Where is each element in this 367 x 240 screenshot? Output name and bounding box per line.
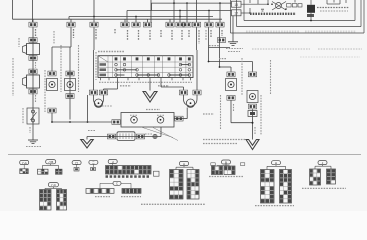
flasher label text	[317, 7, 349, 9]
ground label text	[226, 48, 243, 50]
connector J8 top row	[176, 22, 184, 27]
wire drop to connector x=187	[186, 3, 188, 22]
indicator lamp B	[157, 115, 165, 123]
legend connector hA grid	[20, 165, 28, 174]
legend connector ni label	[89, 160, 98, 164]
connector J12 top row	[216, 22, 224, 27]
wire feed vertical x=94	[93, 0, 95, 17]
wire side lamp R down	[230, 100, 232, 122]
connector below side turn L	[66, 94, 74, 99]
label front turn signal lamp left	[44, 70, 46, 112]
inline connector circle	[153, 134, 157, 138]
turn signal switch S2 block	[98, 56, 193, 78]
wire long feed x=196.5 to right bulb	[196, 27, 198, 50]
legend connector hC grid left	[40, 190, 52, 211]
connector chain left	[107, 134, 115, 139]
junction x=52	[51, 121, 53, 123]
connector below horn H2	[29, 89, 37, 94]
wire colour label	[35, 29, 37, 37]
label horn switch	[22, 108, 24, 124]
wire colour label	[221, 30, 223, 36]
wire colour label	[254, 127, 256, 135]
legend B side tag left	[211, 163, 215, 166]
flasher internal wire y=13	[241, 12, 250, 14]
ground G1 horn switch	[28, 140, 38, 144]
flasher top stub x=295	[294, 0, 296, 3]
wire mid bus y=122	[52, 121, 112, 123]
legend connector J label	[318, 161, 327, 165]
connector J4 top row	[121, 22, 129, 27]
legend connector B grid right	[224, 166, 235, 175]
wire drop to connector x=33	[32, 19, 34, 22]
connector side turn R	[227, 72, 235, 77]
legend H caption	[255, 205, 294, 207]
label side turn lamp right	[220, 95, 222, 130]
wire colour label	[138, 30, 140, 40]
flasher top stub x=250	[249, 0, 251, 3]
label turn signal switch	[98, 51, 125, 53]
legend B bracket	[225, 164, 227, 166]
flasher coil stub	[310, 13, 312, 21]
flasher transistor Q1	[271, 2, 287, 11]
wire front lamp L to mid bus	[51, 113, 53, 122]
connector front turn L	[48, 71, 56, 76]
wire colour label	[145, 133, 152, 135]
switch terminal numbers	[99, 81, 192, 83]
svg-text:ロ: ロ	[75, 161, 78, 165]
connector below horn H1	[29, 56, 37, 61]
wire H1 y=61.5	[209, 61, 253, 63]
wire colour label	[188, 30, 190, 38]
flasher section box	[231, 0, 365, 33]
flasher capacitor C1	[261, 8, 264, 10]
wire colour label	[171, 30, 173, 40]
wire switch terminal to right bulb via y=87	[160, 80, 162, 87]
wire colour label	[35, 62, 37, 68]
junction on bus B at x=136	[135, 16, 137, 18]
inline connector block R	[248, 111, 257, 117]
connector code label hA near bulb	[102, 105, 112, 107]
ground arrow G3 meter	[81, 137, 94, 149]
legend connector A grid left	[170, 170, 184, 200]
junction on bus D at x=187	[186, 2, 188, 4]
connector J2 top row	[67, 22, 75, 27]
connector J7 top row	[166, 22, 174, 27]
wire meter bottom to chain x=161	[160, 127, 162, 137]
indicator lamp A	[130, 115, 138, 123]
label music horn 2	[12, 82, 14, 96]
legend me dot row	[106, 175, 150, 178]
legend connector H grid left	[261, 170, 275, 204]
legend connector B grid left	[212, 166, 223, 175]
svg-text:ハC: ハC	[51, 183, 57, 187]
svg-text:ニ: ニ	[92, 161, 95, 165]
bleed text row 2	[252, 48, 310, 50]
bleed text row 3	[300, 56, 360, 58]
legend A bracket	[183, 166, 185, 168]
wire bus C y=10.5	[127, 10, 232, 12]
wire lamp chain x=70	[69, 47, 71, 120]
wire bulb feed x=93.5	[93, 27, 95, 50]
wire split to left lamps	[70, 27, 72, 47]
wire drop to connector x=220	[219, 3, 221, 22]
flasher coil lower mark	[307, 14, 314, 17]
wire drop to connector x=125	[124, 19, 126, 22]
legend A caption	[141, 203, 205, 205]
wire colour label	[73, 29, 75, 38]
wire H y=47.5	[209, 47, 231, 49]
svg-text:A: A	[183, 162, 185, 166]
wire colour label x=54	[53, 31, 55, 44]
connector bulb left terminal	[89, 90, 97, 95]
connector J6 top row	[143, 22, 151, 27]
flasher top stub x=346	[345, 0, 347, 3]
connector on drop x=219.5	[217, 38, 225, 43]
flasher top wires	[257, 0, 259, 4]
wire feed vertical x=151	[150, 0, 152, 22]
pin 17 box	[232, 10, 242, 16]
horn H2 music horn body	[23, 75, 40, 88]
legend hC bracket	[52, 187, 54, 189]
wire bus D y=3.1	[152, 2, 232, 4]
flasher relay coil L1	[307, 5, 315, 13]
wire colour label	[149, 30, 151, 40]
junction on bus D at x=220	[219, 2, 221, 4]
legend J caption	[302, 187, 346, 189]
junction x=87.5	[87, 121, 89, 123]
label front turn lamp right col2	[260, 95, 262, 135]
wire H2 y=67	[220, 66, 232, 68]
wire label 16 R-Y	[209, 45, 219, 47]
legend strip caption right	[121, 196, 141, 198]
legend connector ni box	[91, 164, 96, 170]
connector chain right	[136, 134, 144, 139]
wire drop to connector x=147.5	[147, 19, 149, 22]
legend connector hB grid right	[56, 169, 63, 174]
connector J5 top row	[132, 22, 140, 27]
label rear turn lamp right	[241, 58, 243, 95]
front turn signal lamp R	[247, 91, 258, 103]
wire drop to connector x=71	[70, 19, 72, 22]
label right bulb	[203, 113, 214, 115]
connector below front turn L	[48, 108, 56, 113]
svg-text:ハB: ハB	[48, 160, 53, 164]
wire colour label	[95, 29, 97, 40]
switch terminal stubs	[101, 78, 191, 81]
ground arrow G4 right	[246, 140, 259, 150]
wire drop to connector x=136	[135, 17, 137, 23]
label meter	[146, 109, 160, 111]
wire bus A y=19	[13, 18, 223, 20]
legend strip left	[86, 189, 114, 194]
wire colour label	[88, 130, 96, 132]
junction on bus C at x=180	[179, 10, 181, 12]
junction on bus D at x=174	[173, 2, 175, 4]
wire colour label	[233, 104, 235, 112]
legend strip item label	[113, 181, 121, 185]
connector right bulb left terminal	[179, 90, 187, 95]
svg-text:ハA: ハA	[22, 161, 27, 165]
junction x=70	[69, 121, 71, 123]
flasher top stub x=334	[333, 0, 335, 3]
legend connector me label	[108, 160, 117, 164]
wire mid bus to meter connector	[112, 120, 120, 125]
legend connector H grid right	[280, 170, 292, 204]
wire drop to connector x=180	[179, 11, 181, 23]
wire pin17 down to ground	[232, 16, 234, 42]
legend connector hC grid right	[57, 190, 67, 211]
connector J9 top row	[183, 22, 191, 27]
wire colour label	[198, 30, 200, 40]
wire pin18 bus	[231, 2, 233, 4]
wire right bulb to meter x=187.2	[186, 108, 188, 119]
wire colour label	[35, 95, 37, 103]
legend connector hC label	[48, 183, 58, 187]
connector side turn L	[66, 71, 74, 76]
connector meter right	[175, 116, 183, 121]
label music horn	[12, 58, 14, 78]
label side turn signal lamp left	[60, 45, 62, 92]
horn switch SW1	[27, 108, 39, 124]
connector code label hB left	[120, 85, 131, 87]
connector below side lamp R	[227, 95, 235, 100]
legend connector J grid left	[310, 169, 321, 185]
flasher relay inner box	[244, 0, 355, 21]
legend separator line	[8, 154, 361, 156]
wire drop to connector x=196.5	[196, 17, 198, 23]
connector above horn H2	[29, 69, 37, 74]
flasher internal wire riser x=268	[267, 0, 269, 4]
flasher top wire right	[327, 3, 340, 5]
front turn signal lamp L	[47, 79, 58, 91]
wire bulb feed from switch x=117.5 y=89	[117, 80, 119, 89]
wire drop conn209 to H1	[208, 27, 210, 61]
wire switch to ground x=150	[149, 80, 151, 90]
connector on horn chain	[29, 38, 37, 43]
junction on bus B at x=94	[93, 16, 95, 18]
wire bus B y=16.5	[69, 16, 213, 18]
wire colour label	[210, 30, 212, 38]
label horn	[18, 38, 20, 47]
wire feed vertical x=174	[173, 0, 175, 22]
wire H2 corner down x=231	[230, 67, 232, 72]
legend connector ro label	[72, 161, 81, 165]
junction on bus C at x=209	[208, 10, 210, 12]
connector below front lamp R	[248, 104, 256, 109]
wire feed vertical x=196.5	[196, 0, 198, 17]
legend strip caption left	[95, 196, 110, 198]
wire drop to connector x=94	[93, 17, 95, 23]
wire join at x=252.5	[231, 122, 253, 124]
legend connector A label	[180, 161, 189, 165]
connector right bulb right terminal	[193, 90, 201, 95]
wire colour label	[160, 30, 162, 38]
legend connector B label	[222, 160, 231, 164]
legend connector J grid right	[327, 169, 336, 184]
flasher relay outer box	[237, 0, 362, 27]
side turn signal lamp R	[226, 79, 237, 91]
wire drop to H2	[219, 48, 221, 68]
wire feed vertical x=32.5	[32, 0, 34, 22]
wire drop to connector x=209	[208, 11, 210, 23]
legend strip bracket	[100, 183, 131, 188]
wire label 16	[219, 58, 227, 60]
svg-text:B: B	[225, 160, 227, 164]
legend J bracket	[322, 165, 324, 167]
connector J1 top row	[29, 22, 37, 27]
wire colour label	[114, 29, 116, 34]
flasher internal wire y=4.2	[241, 3, 268, 5]
legend connector hB grid left	[38, 169, 49, 174]
wire bulb to mid bus x=87.5	[87, 95, 89, 122]
pin 18 box	[232, 1, 242, 7]
legend hB bracket	[50, 164, 52, 166]
wire colour label	[181, 30, 183, 40]
horn H1 body	[23, 44, 40, 55]
wire drop conn220 via glyph	[219, 27, 221, 47]
ground arrow G2 center	[143, 92, 157, 103]
legend connector hB label	[46, 160, 56, 164]
label side turn lamp left 2	[78, 45, 80, 92]
connector J3 top row	[90, 22, 98, 27]
bleed text row 1	[246, 31, 300, 33]
wire horn chain x=33	[32, 27, 34, 140]
legend connector H label	[272, 161, 281, 165]
connector J11 top row	[205, 22, 213, 27]
junction on bus B at x=180	[179, 16, 181, 18]
legend strip right	[122, 189, 141, 194]
flasher resistor R1 hatch	[287, 4, 303, 7]
turn signal bulb left assembly	[94, 95, 104, 107]
ground label	[26, 146, 41, 148]
ground bars G5	[228, 42, 238, 46]
wire colour label	[29, 127, 31, 133]
legend connector ro box	[74, 165, 79, 171]
legend small tag	[154, 171, 160, 176]
side turn signal lamp L	[65, 79, 76, 91]
legend B caption	[209, 176, 243, 178]
turn signal bulb right assembly	[184, 95, 198, 107]
legend B side tag right	[240, 163, 244, 166]
connector front turn R	[248, 72, 256, 77]
legend connector hA label	[20, 160, 29, 164]
label front turn lamp right col3	[270, 60, 272, 95]
wire H1 corner down x=252.5	[252, 62, 254, 72]
wire feed from top-left	[12, 0, 14, 19]
legend connector me wide grid	[106, 164, 152, 175]
connector J10 top row	[192, 22, 200, 27]
connector code label hB right	[158, 85, 169, 87]
legend connector A grid right	[187, 170, 199, 200]
wire colour label	[127, 30, 129, 40]
connector bulb right terminal	[99, 90, 107, 95]
svg-text:メ: メ	[111, 160, 114, 164]
resistor block in chain	[117, 132, 135, 141]
leader lines to indicator label	[141, 127, 173, 138]
flasher title text dark	[250, 13, 296, 15]
label turn signal indicator lamp	[203, 139, 246, 141]
wire drop to connector x=170	[169, 19, 171, 22]
combination meter M1 box	[121, 113, 174, 128]
wire chain y=136.5	[87, 136, 161, 138]
svg-text:H: H	[275, 161, 277, 165]
legend H bracket	[275, 165, 277, 167]
